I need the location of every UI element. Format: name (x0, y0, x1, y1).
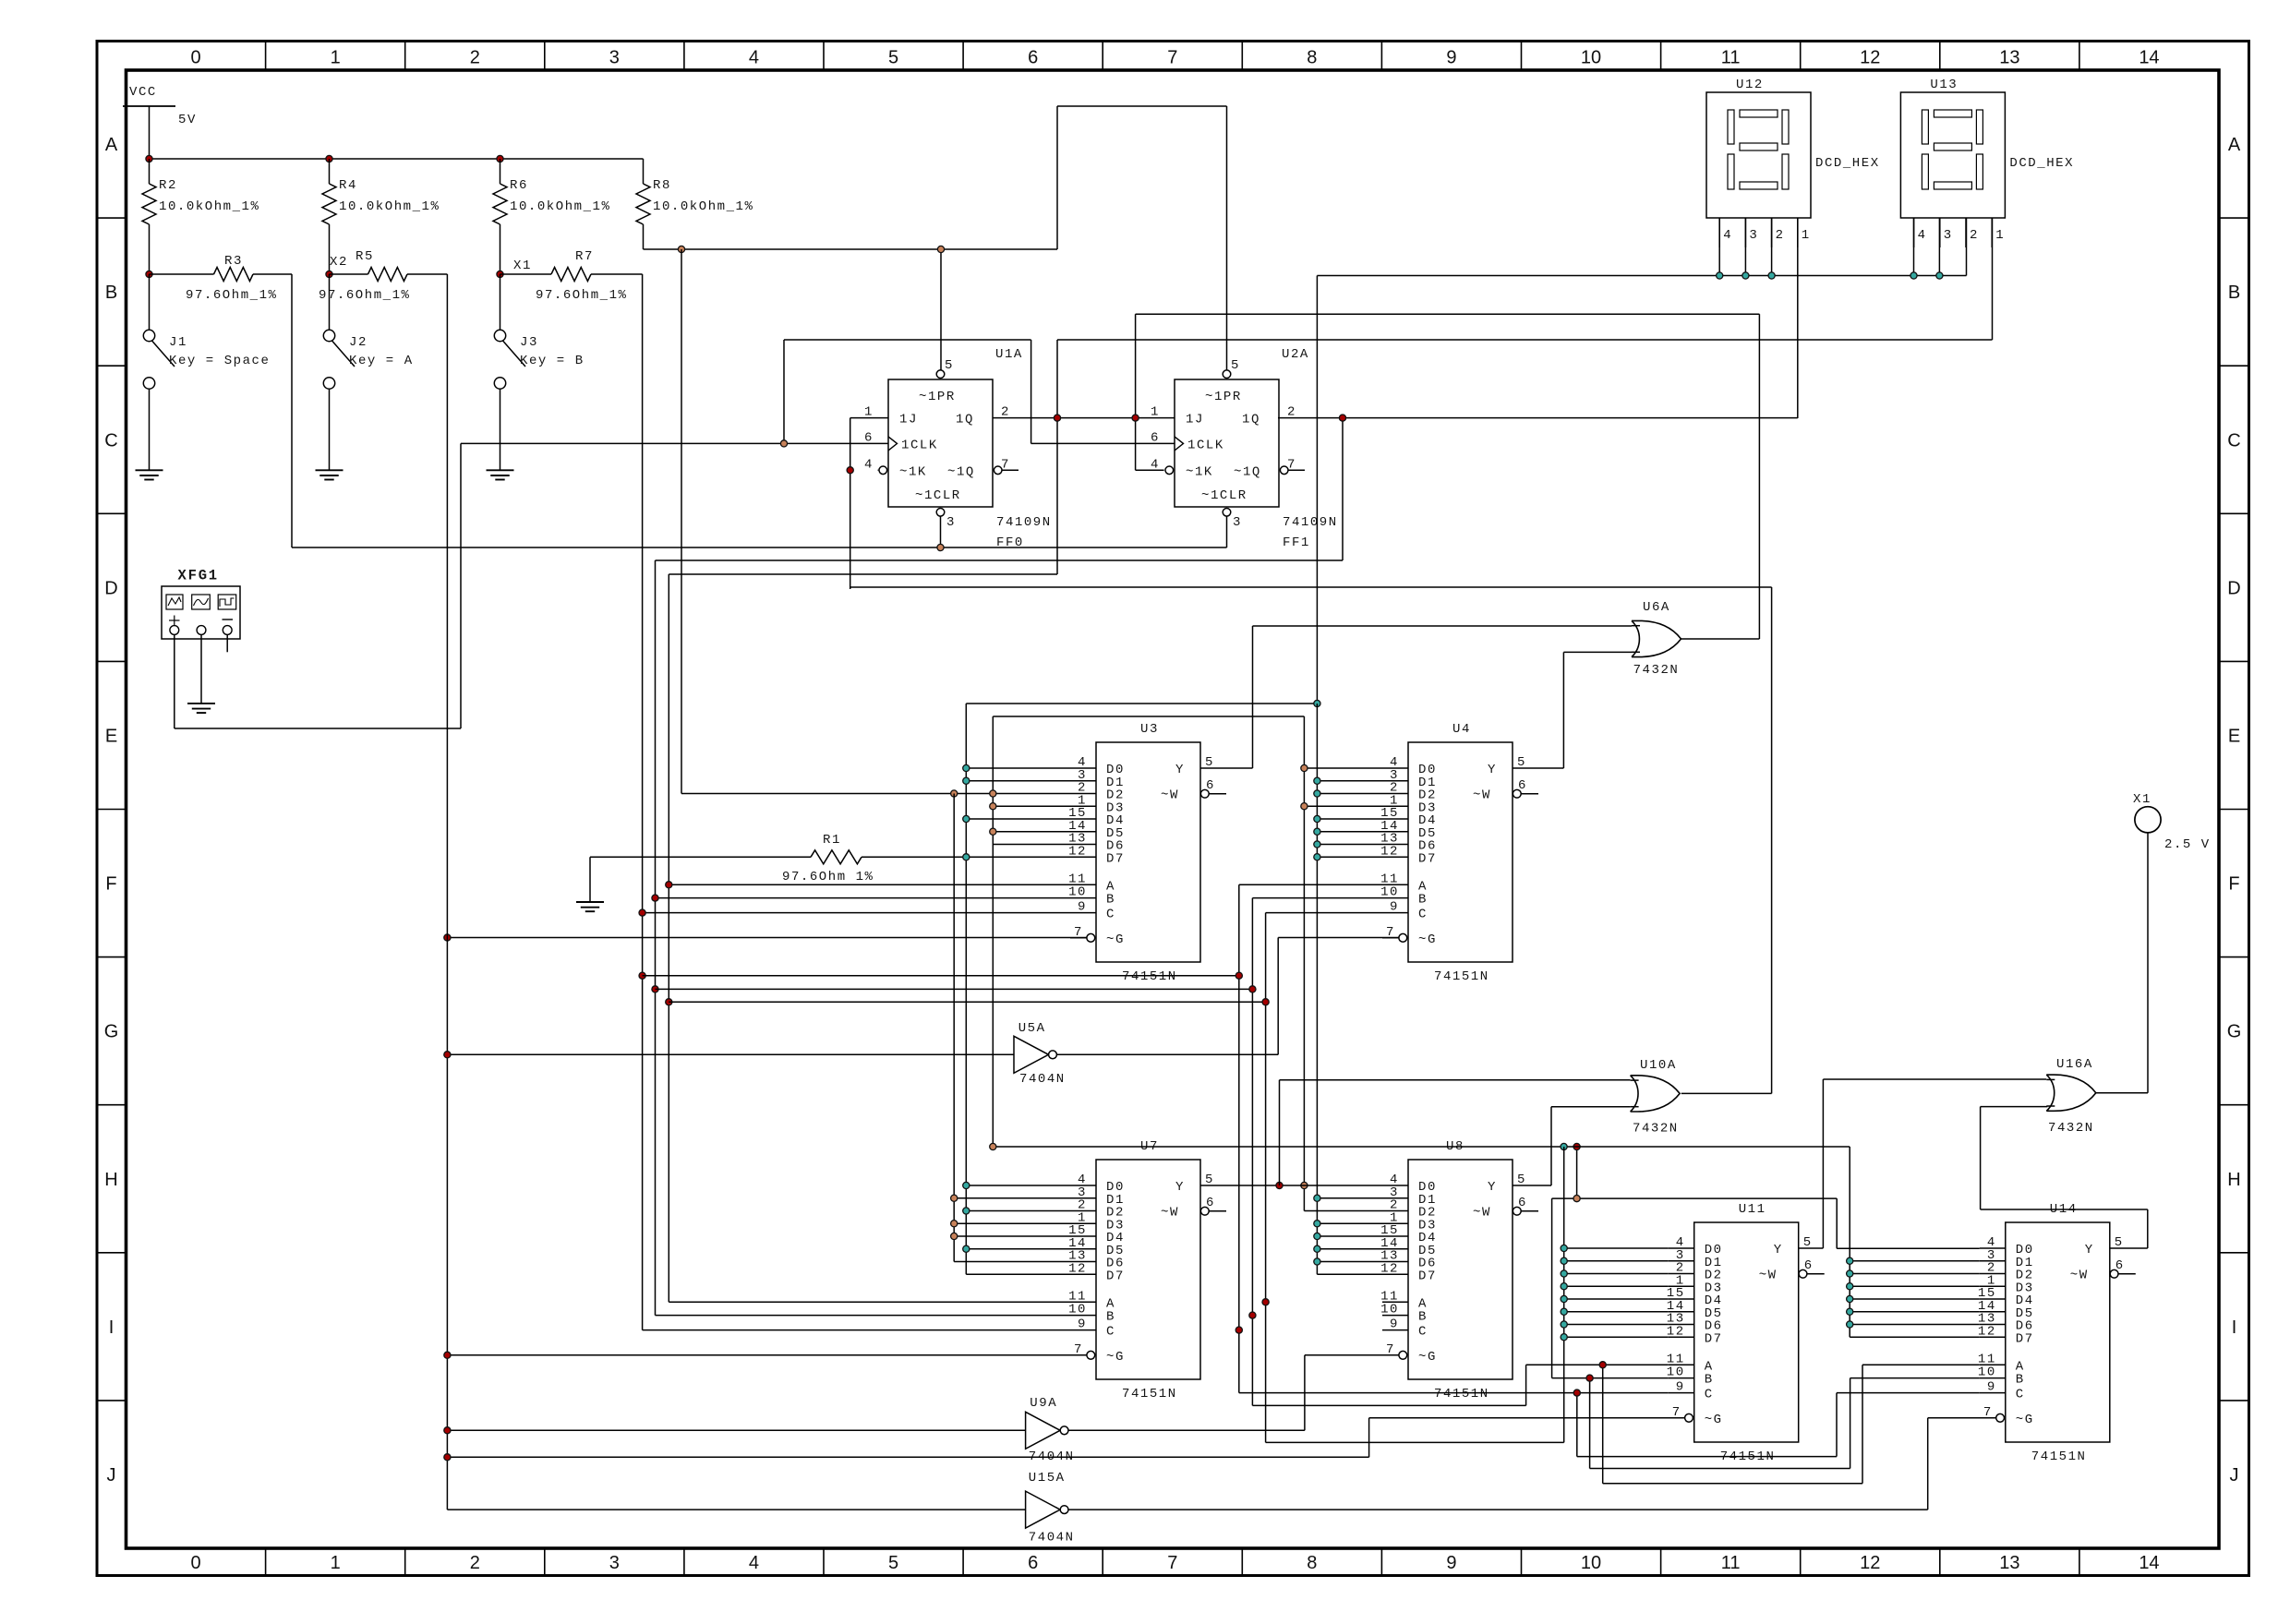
junction U14 D (1847, 1321, 1853, 1328)
svg-text:9: 9 (1078, 1317, 1087, 1332)
inverter U5A 7404N (1014, 1021, 1066, 1087)
svg-text:~G: ~G (1106, 1350, 1125, 1365)
svg-text:7432N: 7432N (1633, 1122, 1679, 1137)
svg-text:H: H (2227, 1170, 2240, 1190)
svg-text:1J: 1J (899, 413, 918, 427)
svg-text:13: 13 (1999, 48, 2019, 68)
svg-text:F: F (2228, 874, 2239, 895)
svg-text:~G: ~G (1705, 1413, 1723, 1427)
svg-text:7: 7 (1167, 1553, 1177, 1573)
svg-text:3: 3 (609, 48, 620, 68)
junction U2A 1Q (1339, 415, 1345, 421)
svg-text:4: 4 (864, 457, 874, 472)
svg-text:12: 12 (1860, 1553, 1880, 1573)
junction VCC-R2 (146, 155, 152, 162)
ground J2 (316, 470, 343, 479)
junction U4 D (1314, 790, 1320, 797)
svg-text:C: C (2227, 430, 2240, 451)
ground R1 (576, 902, 604, 911)
svg-text:~1CLR: ~1CLR (1201, 488, 1247, 503)
svg-text:97.6Ohm_1%: 97.6Ohm_1% (536, 288, 628, 303)
flip-flop U1A 74109N (864, 347, 1052, 550)
svg-text:U6A: U6A (1643, 600, 1670, 615)
wire J2 to ground (329, 389, 331, 470)
resistor R4 10.0kOhm_1% (322, 159, 440, 274)
svg-text:97.6Ohm_1%: 97.6Ohm_1% (319, 288, 411, 303)
svg-text:3: 3 (946, 515, 956, 530)
svg-text:10: 10 (1581, 1553, 1601, 1573)
resistor R6 10.0kOhm_1% (493, 159, 610, 274)
svg-text:D7: D7 (1418, 1269, 1437, 1283)
svg-text:12: 12 (1860, 48, 1880, 68)
junction U4A riser (1235, 972, 1242, 979)
svg-text:~1Q: ~1Q (1234, 464, 1261, 479)
svg-text:10: 10 (1667, 1365, 1685, 1380)
junction X2-U5A (444, 1052, 451, 1058)
mux U3 74151N (1068, 722, 1226, 984)
junction U1A pin5 (937, 246, 944, 252)
svg-text:74109N: 74109N (1283, 515, 1338, 530)
svg-text:J3: J3 (520, 335, 538, 350)
ground J1 (136, 470, 163, 479)
svg-text:5: 5 (1231, 358, 1240, 373)
junction U4 D (1314, 828, 1320, 835)
svg-text:10.0kOhm_1%: 10.0kOhm_1% (339, 199, 440, 214)
svg-text:5: 5 (945, 358, 954, 373)
svg-text:B: B (1418, 893, 1428, 908)
wire net mux data line (U16A in1 feed) (993, 1147, 1980, 1337)
svg-text:74151N: 74151N (1434, 969, 1489, 984)
svg-text:U13: U13 (1930, 78, 1958, 92)
wire net FF0 Q select riser (669, 574, 1070, 1302)
svg-text:6: 6 (1518, 778, 1527, 793)
svg-text:1: 1 (1995, 228, 2005, 243)
svg-text:12: 12 (1667, 1324, 1685, 1339)
svg-text:VCC: VCC (129, 85, 157, 100)
svg-text:12: 12 (1068, 844, 1087, 859)
svg-text:9: 9 (1078, 900, 1087, 915)
svg-text:U16A: U16A (2056, 1057, 2093, 1072)
junction X2-U7G (444, 1352, 451, 1358)
junction display bus (1717, 272, 1723, 279)
wire XFG1 negative stub (226, 634, 228, 652)
junction U11 C (1573, 1389, 1580, 1396)
svg-text:74109N: 74109N (996, 515, 1052, 530)
junction U3 A (666, 882, 672, 888)
svg-text:9: 9 (1446, 48, 1456, 68)
svg-text:FF1: FF1 (1283, 535, 1310, 550)
7-segment display U13 DCD_HEX (1900, 78, 2074, 247)
junction U3 D feed (963, 815, 970, 822)
svg-text:10: 10 (1978, 1365, 1996, 1380)
svg-text:I: I (2232, 1317, 2237, 1338)
svg-text:B: B (1106, 1310, 1115, 1325)
junction U3 D2 spine-b (990, 790, 996, 797)
svg-text:J2: J2 (349, 335, 368, 350)
svg-text:D: D (104, 578, 117, 598)
junction U8 B row (1249, 1312, 1256, 1318)
svg-text:E: E (105, 726, 117, 746)
wire J3 to ground (500, 389, 501, 470)
svg-text:U3: U3 (1140, 722, 1159, 737)
wire U5A out to U4 ~G (1056, 938, 1399, 1055)
svg-text:5: 5 (888, 48, 898, 68)
wire net U4 B select (656, 898, 1383, 1406)
junction U3 D feed (963, 764, 970, 771)
resistor R1 97.6Ohm_1% (590, 833, 1070, 902)
inverter U9A 7404N (1026, 1396, 1075, 1464)
mux U4 74151N (1380, 722, 1538, 984)
junction X2-U9A (444, 1427, 451, 1434)
junction U3 D3 (990, 803, 996, 810)
junction U3 D feed (963, 777, 970, 784)
svg-text:Y: Y (1175, 1180, 1185, 1195)
wire R3 to ~CLR net (291, 274, 293, 547)
svg-text:D7: D7 (1106, 851, 1125, 866)
svg-text:11: 11 (1721, 1553, 1741, 1573)
svg-text:12: 12 (1380, 1261, 1399, 1276)
wire U2A 1Q net (1278, 418, 1798, 560)
svg-text:1Q: 1Q (956, 413, 974, 427)
junction X2-G (444, 934, 451, 941)
svg-text:74151N: 74151N (2031, 1450, 2087, 1464)
svg-text:~1K: ~1K (1186, 464, 1213, 479)
svg-text:U15A: U15A (1029, 1471, 1066, 1486)
junction U8 D (1314, 1245, 1320, 1252)
svg-text:C: C (1106, 908, 1115, 922)
svg-text:5: 5 (888, 1553, 898, 1573)
svg-text:74151N: 74151N (1122, 969, 1177, 984)
junction VCC-R6 (497, 155, 503, 162)
svg-text:6: 6 (1028, 1553, 1038, 1573)
svg-text:X1: X1 (2133, 792, 2151, 807)
svg-text:R7: R7 (575, 249, 594, 264)
svg-text:3: 3 (609, 1553, 620, 1573)
svg-text:R8: R8 (653, 178, 671, 193)
svg-text:4: 4 (749, 48, 759, 68)
wire U6A output riser (1681, 638, 1760, 640)
junction U8 D (1314, 1233, 1320, 1239)
svg-text:1CLK: 1CLK (901, 438, 938, 452)
svg-text:Key = Space: Key = Space (169, 354, 270, 368)
junction U3 B (652, 895, 658, 901)
wire net X2 to U7 ~G (447, 1354, 1087, 1356)
junction U4 D (1314, 841, 1320, 848)
svg-text:B: B (105, 283, 117, 303)
svg-text:3: 3 (1944, 228, 1953, 243)
wire X2 to U15A input (447, 1509, 1025, 1510)
wire U7 D rows from spine 1046 (966, 1185, 1070, 1274)
junction U8 D (1314, 1195, 1320, 1201)
svg-text:1: 1 (1802, 228, 1811, 243)
svg-text:0: 0 (190, 48, 200, 68)
junction R2-R3-J1 (146, 271, 152, 277)
svg-text:R5: R5 (356, 249, 374, 264)
switch J3 Key = B (494, 274, 584, 389)
ground J3 (487, 470, 514, 479)
svg-text:U9A: U9A (1030, 1396, 1057, 1411)
wire net 1412 spine (U4 D0/D3, U8 D0/D2) (1304, 716, 1382, 1211)
svg-text:B: B (1106, 893, 1115, 908)
junction display bus (1768, 272, 1775, 279)
junction 1242-1707 (1573, 1143, 1580, 1149)
svg-text:D7: D7 (1705, 1331, 1723, 1346)
junction U11 D (1561, 1321, 1567, 1328)
wire U16A output to probe (2096, 833, 2148, 1093)
svg-text:97.6Ohm_1%: 97.6Ohm_1% (186, 288, 278, 303)
svg-text:~G: ~G (1418, 932, 1437, 947)
svg-text:74151N: 74151N (1434, 1387, 1489, 1401)
svg-text:Y: Y (2085, 1243, 2094, 1257)
junction X2-U11G (444, 1454, 451, 1461)
junction U7 D feed a (963, 1182, 970, 1188)
svg-text:5V: 5V (178, 113, 197, 127)
wire U2A J-K-CLK tie (1136, 314, 1175, 470)
ground XFG1 (187, 704, 215, 713)
svg-text:6: 6 (1518, 1196, 1527, 1210)
svg-text:~W: ~W (1759, 1269, 1778, 1283)
mux U8 74151N (1380, 1139, 1538, 1401)
flip-flop U2A 74109N (1151, 347, 1338, 550)
junction VCC-R4 (326, 155, 332, 162)
svg-text:3: 3 (1233, 515, 1242, 530)
junction U1A pin3 (937, 544, 944, 550)
svg-text:~G: ~G (2016, 1413, 2034, 1427)
junction U11 D (1561, 1257, 1567, 1264)
svg-text:9: 9 (1390, 900, 1399, 915)
wire net U4 A select (643, 884, 1382, 1392)
svg-text:J: J (107, 1465, 116, 1486)
junction U11 D (1561, 1295, 1567, 1302)
wire XFG CLK to U1A pin6 and U2A pin6 (461, 340, 1175, 443)
junction U8 A row (1262, 1299, 1269, 1305)
junction U8 C row (1235, 1327, 1242, 1333)
junction U4 D (1314, 815, 1320, 822)
junction U7 D feed a (963, 1245, 970, 1252)
junction U1A 1Q (1054, 415, 1060, 421)
wire J1 to ground (149, 389, 151, 470)
svg-text:11: 11 (1721, 48, 1741, 68)
svg-text:~1PR: ~1PR (919, 390, 956, 404)
svg-text:R4: R4 (339, 178, 357, 193)
resistor R8 10.0kOhm_1% (636, 159, 753, 249)
svg-text:R1: R1 (823, 833, 841, 848)
junction U7 D feed b (951, 1233, 958, 1239)
svg-text:8: 8 (1307, 1553, 1317, 1573)
wire net X-Space to ~1CLR pins (292, 517, 1227, 548)
svg-text:6: 6 (1206, 1196, 1215, 1210)
wire U7 Y row to U8 D0 (1200, 1185, 1382, 1186)
junction R6-R7-J3 (497, 271, 503, 277)
svg-text:R3: R3 (224, 254, 243, 269)
junction U8 D (1314, 1258, 1320, 1265)
svg-text:D: D (2227, 578, 2240, 598)
svg-text:U1A: U1A (995, 347, 1023, 362)
svg-text:D7: D7 (2016, 1331, 2034, 1346)
svg-text:0: 0 (190, 1553, 200, 1573)
junction U7 D feed b (951, 1195, 958, 1201)
function generator XFG1 (162, 568, 240, 640)
junction display bus (1910, 272, 1917, 279)
junction 1242-1693 (1561, 1143, 1567, 1149)
svg-text:~G: ~G (1418, 1350, 1437, 1365)
svg-text:A: A (105, 135, 118, 155)
wire U14 D spine (1850, 1261, 1980, 1325)
wire X2 to U9A input (447, 1429, 1025, 1431)
svg-text:G: G (2227, 1022, 2242, 1042)
svg-text:XFG1: XFG1 (178, 568, 219, 584)
svg-text:E: E (2228, 726, 2240, 746)
svg-text:~G: ~G (1106, 932, 1125, 947)
wire U4 Y to U6A input2 (1513, 652, 1633, 768)
resistor R7 97.6Ohm_1% (node X1) (500, 249, 643, 303)
junction U8 D (1314, 1221, 1320, 1227)
wire net select B chain (U8.Y branch to U11.B to U14.B) (1552, 1198, 1980, 1468)
junction U7Y-U10A riser (1276, 1182, 1283, 1188)
or-gate U6A 7432N (1632, 600, 1681, 678)
junction U3 D5 (990, 828, 996, 835)
wire U11 Y to U16A in1 (1799, 1079, 2048, 1248)
svg-text:10: 10 (1380, 885, 1399, 900)
junction U7 D feed a (963, 1208, 970, 1214)
svg-text:6: 6 (1206, 778, 1215, 793)
svg-text:C: C (1418, 908, 1428, 922)
junction U7 D feed b (951, 1221, 958, 1227)
svg-text:7: 7 (1167, 48, 1177, 68)
wire U14 Y to U16A in2 (1981, 1107, 2148, 1248)
junction U14 D (1847, 1283, 1853, 1290)
svg-text:H: H (104, 1170, 117, 1190)
svg-text:1: 1 (331, 1553, 341, 1573)
wire net 1426 spine (display bus to U4/U8 D) (1317, 704, 1382, 1274)
svg-text:C: C (1418, 1325, 1428, 1340)
resistor R2 10.0kOhm_1% (142, 159, 259, 274)
junction 1242-1075 (990, 1143, 996, 1149)
junction U4 D0 (1301, 764, 1308, 771)
probe X1 2.5 V (2133, 792, 2211, 852)
svg-text:12: 12 (1068, 1261, 1087, 1276)
wire U11 D spine (1266, 1147, 1669, 1442)
junction U11 D (1561, 1334, 1567, 1341)
svg-text:1Q: 1Q (1242, 413, 1260, 427)
resistor R3 97.6Ohm_1% (150, 254, 293, 303)
junction PR-branch (678, 246, 684, 252)
wire net X2 to U11 ~G (447, 1418, 1684, 1458)
svg-text:U4: U4 (1452, 722, 1471, 737)
wire net R8 pullup to ~1PR pins (644, 106, 1227, 370)
svg-text:B: B (2228, 283, 2240, 303)
svg-text:7432N: 7432N (1633, 663, 1680, 678)
junction U3 D2 spine-a (951, 790, 958, 797)
junction U4 D (1314, 777, 1320, 784)
svg-text:D7: D7 (1106, 1269, 1125, 1283)
junction U8 D0 (1301, 1182, 1308, 1188)
svg-text:6: 6 (2115, 1258, 2125, 1273)
power VCC (123, 85, 197, 159)
svg-text:4: 4 (749, 1553, 759, 1573)
svg-text:R2: R2 (159, 178, 177, 193)
svg-text:I: I (109, 1317, 114, 1338)
svg-text:B: B (1418, 1310, 1428, 1325)
wire net VCC rail (150, 158, 644, 160)
junction U11 A (1599, 1362, 1606, 1368)
wire display bus (1317, 218, 1966, 704)
svg-text:1CLK: 1CLK (1187, 438, 1224, 452)
mux U14 74151N (1978, 1202, 2136, 1464)
junction U4B riser (1249, 986, 1256, 992)
svg-text:Key = B: Key = B (520, 354, 585, 368)
junction display bus (1742, 272, 1749, 279)
svg-text:C: C (1106, 1325, 1115, 1340)
svg-text:1J: 1J (1186, 413, 1204, 427)
svg-text:10.0kOhm_1%: 10.0kOhm_1% (653, 199, 753, 214)
wire XFG1 output to CLK (175, 443, 461, 728)
mux U7 74151N (1068, 1139, 1226, 1401)
svg-text:8: 8 (1307, 48, 1317, 68)
svg-text:7: 7 (1983, 1405, 1993, 1420)
svg-text:2: 2 (470, 1553, 480, 1573)
svg-text:~1K: ~1K (899, 464, 927, 479)
wire net FF1 Q select riser (656, 560, 1071, 1316)
svg-text:9: 9 (1390, 1317, 1399, 1332)
svg-text:X1: X1 (513, 259, 532, 273)
svg-text:~1Q: ~1Q (947, 464, 975, 479)
svg-text:U11: U11 (1739, 1202, 1766, 1217)
svg-text:7432N: 7432N (2048, 1121, 2094, 1136)
svg-text:9: 9 (1676, 1380, 1685, 1395)
junction U11 D (1561, 1270, 1567, 1277)
resistor R5 97.6Ohm_1% (node X2) (319, 249, 447, 303)
svg-text:B: B (2016, 1373, 2025, 1388)
svg-text:3: 3 (1749, 228, 1758, 243)
svg-text:10: 10 (1581, 48, 1601, 68)
junction display bus (1936, 272, 1943, 279)
wire net X2 to U3 ~G (447, 937, 1087, 939)
junction R1-D7 (963, 854, 970, 860)
svg-text:~W: ~W (1161, 1206, 1179, 1221)
svg-text:2.5 V: 2.5 V (2164, 837, 2211, 852)
wire U2A 1Q to col riser (656, 559, 1344, 561)
wire net X1 select riser (643, 274, 1070, 1330)
svg-text:6: 6 (1804, 1258, 1814, 1273)
junction U14 D (1847, 1308, 1853, 1315)
svg-text:Y: Y (1175, 763, 1185, 777)
wire XFG1 common to ground (200, 634, 202, 704)
wire U3 Y to U6A input (1200, 626, 1633, 768)
svg-text:10: 10 (1380, 1303, 1399, 1317)
svg-text:2: 2 (1970, 228, 1979, 243)
svg-text:~W: ~W (2070, 1269, 2089, 1283)
wire net U4 C select (669, 913, 1382, 1443)
wire U10A in1 riser (1280, 1080, 1632, 1185)
svg-text:6: 6 (1028, 48, 1038, 68)
junction 762-1426 (1314, 700, 1320, 706)
wire net PR to U3 D2 row (681, 249, 1070, 794)
wire net U3D2 spine to U7 (953, 794, 955, 1262)
junction U14 D (1847, 1295, 1853, 1302)
wire net segdata A (U3 D0/D1/D4/D7) (966, 704, 1317, 1274)
junction U11 D (1561, 1283, 1567, 1290)
wire U1A 1Q net (993, 340, 1136, 574)
junction U14D0 feed (1573, 1196, 1580, 1202)
wire net X2 riser (446, 274, 448, 1510)
wire U6A output to U2A J-K (1136, 314, 1760, 639)
svg-text:~W: ~W (1473, 788, 1491, 803)
svg-text:~1CLR: ~1CLR (915, 488, 961, 503)
svg-text:DCD_HEX: DCD_HEX (2009, 156, 2074, 171)
svg-text:10.0kOhm_1%: 10.0kOhm_1% (510, 199, 610, 214)
svg-text:~1PR: ~1PR (1205, 390, 1242, 404)
